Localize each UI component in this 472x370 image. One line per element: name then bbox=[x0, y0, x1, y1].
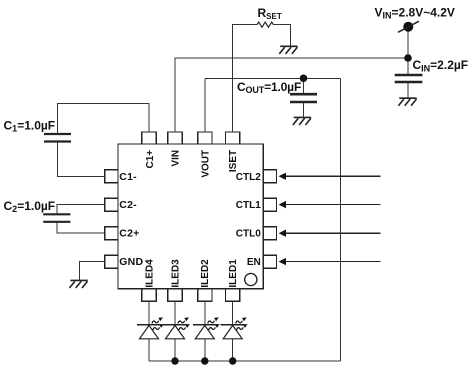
pin CTL0 (right 3) bbox=[263, 227, 276, 240]
ground (RSET) bbox=[279, 46, 297, 54]
wire CIN bottom plate to ground bbox=[407, 83, 409, 98]
svg-text:CTL1: CTL1 bbox=[236, 200, 261, 211]
wire ILED3 pin to LED3 bbox=[174, 301, 176, 324]
svg-text:C1+: C1+ bbox=[145, 150, 156, 169]
svg-text:C2=1.0µF: C2=1.0µF bbox=[4, 199, 56, 214]
node junction LED bus / ILED2 bbox=[201, 357, 208, 364]
capacitor COUT bbox=[290, 94, 317, 102]
LED D4 bbox=[137, 317, 164, 361]
wire VOUT to right vertical bbox=[205, 77, 340, 79]
capacitor C1 bbox=[44, 134, 71, 142]
svg-text:ILED1: ILED1 bbox=[228, 259, 239, 288]
pin ISET (top 4) bbox=[226, 132, 240, 144]
wire COUT bottom plate to ground bbox=[303, 103, 305, 117]
svg-text:VOUT: VOUT bbox=[200, 150, 211, 178]
svg-text:ILED2: ILED2 bbox=[200, 259, 211, 288]
svg-text:EN: EN bbox=[247, 257, 261, 268]
pin ILED3 (bottom 2) bbox=[168, 289, 182, 302]
wire right vertical VOUT to LED bus bbox=[339, 78, 341, 361]
ground (COUT) bbox=[293, 117, 311, 125]
svg-text:ISET: ISET bbox=[228, 150, 239, 172]
pin ILED4 (bottom 1) bbox=[142, 289, 156, 302]
wire VIN pin to CIN node bbox=[175, 58, 408, 132]
ground (GND pin) bbox=[69, 280, 87, 288]
pin EN (right 4) bbox=[263, 255, 276, 268]
wire ILED2 pin to LED2 bbox=[204, 301, 206, 324]
resistor RSET bbox=[257, 22, 274, 27]
pin ILED2 (bottom 3) bbox=[198, 289, 212, 302]
wire CTL2 control input with arrow bbox=[279, 173, 381, 180]
svg-text:C1=1.0µF: C1=1.0µF bbox=[4, 118, 56, 133]
wire VIN terminal to node bbox=[407, 29, 409, 58]
svg-text:C2-: C2- bbox=[119, 199, 137, 211]
pin C1- (left 1) bbox=[105, 170, 118, 183]
wire CTL1 control input with arrow bbox=[279, 201, 381, 208]
svg-text:VIN: VIN bbox=[170, 150, 181, 167]
svg-text:ILED3: ILED3 bbox=[170, 259, 181, 288]
svg-text:C1-: C1- bbox=[119, 171, 137, 183]
node junction LED bus / ILED1 bbox=[229, 357, 236, 364]
svg-text:GND: GND bbox=[119, 256, 143, 268]
wire C2 bottom plate to C2+ pin bbox=[57, 222, 105, 233]
LED D1 bbox=[221, 317, 248, 361]
wire ILED1 pin to LED1 bbox=[232, 301, 234, 324]
wire GND pin to ground bbox=[80, 262, 105, 281]
svg-text:CIN=2.2µF: CIN=2.2µF bbox=[413, 58, 469, 73]
wire EN control input with arrow bbox=[279, 258, 381, 265]
wire node to CIN top plate bbox=[407, 58, 409, 74]
wire C1 top plate to C1+ pin bbox=[58, 104, 150, 135]
wire CTL0 control input with arrow bbox=[279, 230, 381, 237]
wire ILED4 pin to LED4 bbox=[148, 301, 150, 324]
node junction at VIN/CIN bbox=[404, 54, 412, 62]
svg-text:ILED4: ILED4 bbox=[144, 259, 155, 288]
pin C2+ (left 3) bbox=[105, 227, 118, 240]
wire RSET right to ground bbox=[274, 25, 291, 46]
LED D2 bbox=[193, 317, 220, 361]
pin 1 indicator circle bbox=[245, 273, 257, 285]
svg-text:CTL0: CTL0 bbox=[236, 229, 261, 240]
wire ISET pin to RSET left bbox=[233, 25, 257, 132]
LED D3 bbox=[163, 317, 190, 361]
svg-text:CTL2: CTL2 bbox=[236, 172, 261, 183]
pin GND (left 4) bbox=[105, 255, 118, 268]
node junction at VOUT/COUT bbox=[300, 75, 308, 83]
svg-text:RSET: RSET bbox=[258, 6, 282, 21]
pin VIN (top 2) bbox=[168, 132, 182, 144]
pin C1+ (top 1) bbox=[142, 132, 156, 144]
svg-text:C2+: C2+ bbox=[119, 228, 139, 240]
pin C2- (left 2) bbox=[105, 198, 118, 211]
ground (CIN) bbox=[398, 98, 416, 106]
wire C2 top plate to C2- pin bbox=[57, 205, 105, 215]
node junction LED bus / ILED3 bbox=[171, 357, 178, 364]
IC U1 body bbox=[118, 144, 263, 289]
wire LED bottom bus bbox=[149, 360, 340, 362]
pin CTL2 (right 1) bbox=[263, 170, 276, 183]
pin CTL1 (right 2) bbox=[263, 198, 276, 211]
wire COUT node down to top plate bbox=[303, 78, 305, 93]
VIN input terminal bbox=[398, 21, 419, 32]
wire VOUT pin up bbox=[204, 78, 206, 132]
pin VOUT (top 3) bbox=[198, 132, 212, 144]
svg-text:VIN=2.8V~4.2V: VIN=2.8V~4.2V bbox=[375, 5, 455, 20]
capacitor CIN bbox=[395, 75, 423, 82]
pin ILED1 (bottom 4) bbox=[226, 289, 240, 302]
capacitor C2 bbox=[43, 214, 70, 222]
svg-text:COUT=1.0µF: COUT=1.0µF bbox=[237, 80, 301, 95]
wire C1 bottom plate to C1- pin bbox=[58, 142, 105, 177]
